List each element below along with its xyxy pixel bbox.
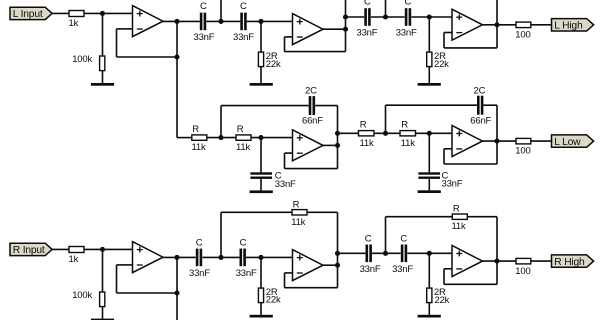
- svg-text:11k: 11k: [192, 142, 206, 153]
- svg-text:L Low: L Low: [554, 137, 581, 148]
- svg-text:100k: 100k: [72, 290, 92, 301]
- svg-text:11k: 11k: [236, 142, 250, 153]
- svg-text:11k: 11k: [291, 217, 305, 228]
- svg-text:1k: 1k: [69, 18, 79, 29]
- svg-text:2C: 2C: [474, 86, 486, 97]
- svg-text:33nF: 33nF: [357, 28, 378, 39]
- svg-text:L High: L High: [554, 21, 583, 32]
- svg-text:C: C: [400, 234, 407, 245]
- svg-text:11k: 11k: [360, 138, 374, 149]
- svg-text:33nF: 33nF: [236, 268, 257, 279]
- svg-text:100: 100: [515, 266, 530, 277]
- svg-text:11k: 11k: [401, 138, 415, 149]
- svg-text:1k: 1k: [69, 254, 79, 265]
- svg-text:R: R: [453, 204, 460, 215]
- svg-text:33nF: 33nF: [194, 32, 215, 43]
- svg-text:22k: 22k: [266, 59, 281, 70]
- svg-text:R: R: [360, 120, 367, 131]
- svg-text:33nF: 33nF: [233, 32, 254, 43]
- svg-text:11k: 11k: [452, 221, 466, 232]
- svg-text:66nF: 66nF: [302, 115, 323, 126]
- svg-text:33nF: 33nF: [392, 264, 413, 275]
- svg-text:C: C: [240, 237, 247, 248]
- svg-text:C: C: [364, 0, 371, 8]
- svg-text:33nF: 33nF: [360, 264, 381, 275]
- svg-text:R: R: [237, 124, 244, 135]
- svg-text:C: C: [365, 234, 372, 245]
- svg-text:R: R: [293, 199, 300, 210]
- svg-text:C: C: [196, 237, 203, 248]
- svg-text:L Input: L Input: [13, 9, 43, 20]
- svg-text:C: C: [240, 1, 247, 12]
- svg-text:100: 100: [515, 29, 530, 40]
- svg-text:C: C: [405, 0, 412, 8]
- svg-text:33nF: 33nF: [442, 179, 463, 190]
- svg-text:2C: 2C: [305, 86, 317, 97]
- svg-text:22k: 22k: [266, 295, 281, 306]
- svg-text:100k: 100k: [72, 54, 92, 65]
- svg-text:R High: R High: [554, 257, 585, 268]
- svg-text:R: R: [401, 120, 408, 131]
- svg-text:R: R: [192, 124, 199, 135]
- svg-text:33nF: 33nF: [396, 28, 417, 39]
- svg-text:22k: 22k: [435, 295, 450, 306]
- svg-text:C: C: [200, 1, 207, 12]
- svg-text:33nF: 33nF: [275, 179, 296, 190]
- svg-text:22k: 22k: [434, 59, 449, 70]
- svg-text:100: 100: [515, 146, 530, 157]
- svg-text:R Input: R Input: [13, 245, 45, 256]
- svg-text:33nF: 33nF: [189, 268, 210, 279]
- svg-text:66nF: 66nF: [470, 115, 491, 126]
